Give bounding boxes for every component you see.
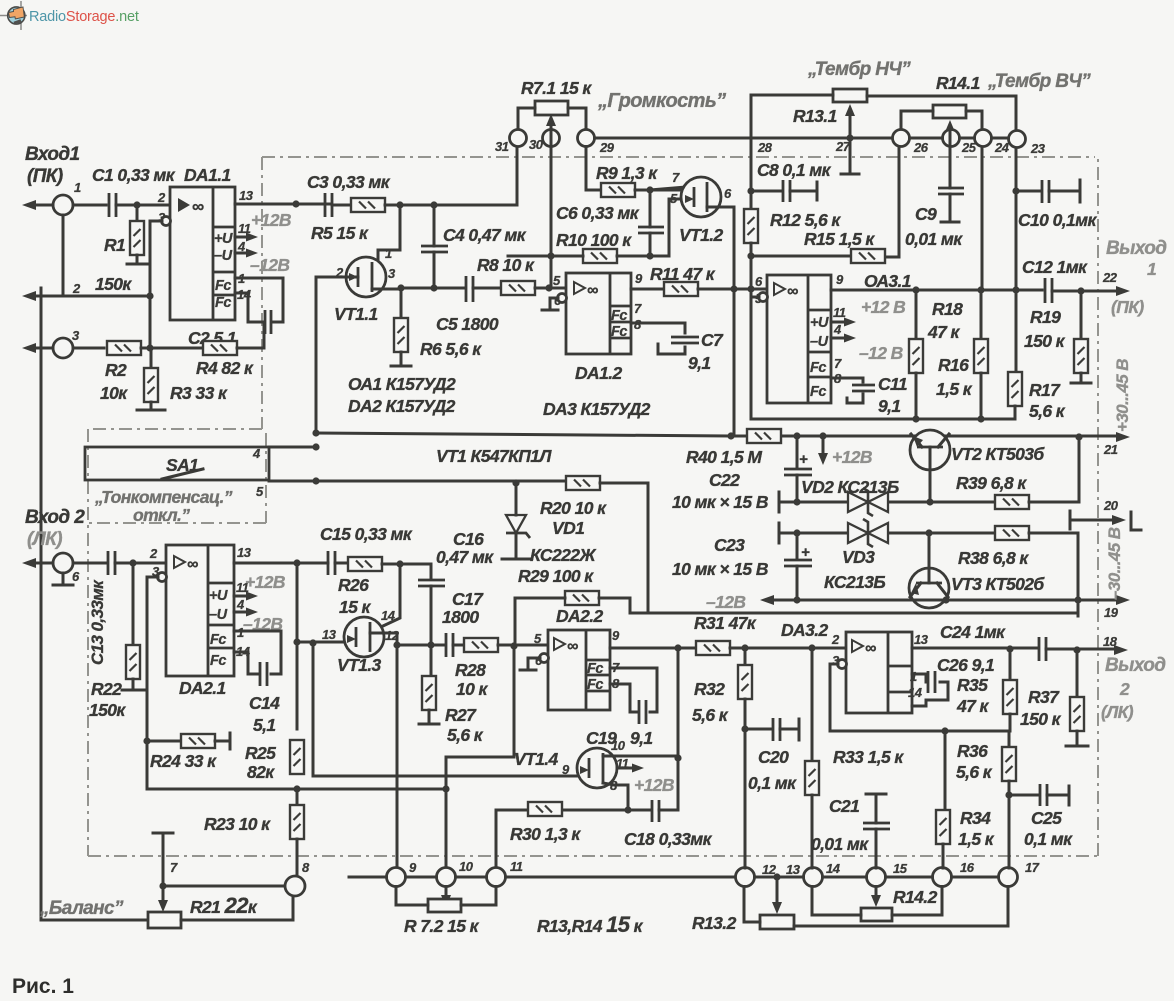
svg-text:∞: ∞ bbox=[187, 556, 198, 573]
svg-text:Вход1: Вход1 bbox=[25, 144, 80, 165]
svg-text:R35: R35 bbox=[957, 675, 988, 695]
wire C2 loop from pin1 bbox=[235, 278, 283, 322]
node x678 output bbox=[674, 644, 681, 651]
svg-text:1,5 к: 1,5 к bbox=[958, 829, 995, 849]
wire R7.2 right lead bbox=[461, 887, 496, 906]
svg-text:–12В: –12В bbox=[706, 592, 745, 612]
svg-text:VT1 К547КП1Л: VT1 К547КП1Л bbox=[436, 446, 552, 466]
wire feedback rail y789 bbox=[147, 788, 446, 791]
svg-text:4: 4 bbox=[236, 597, 245, 612]
transistor VT1.2 bbox=[681, 177, 721, 217]
node feedback x150 bbox=[146, 344, 153, 351]
wire R10 wires bbox=[551, 255, 669, 258]
R14.2 wiper arrow bbox=[875, 887, 878, 899]
resistor R2 bbox=[107, 341, 141, 355]
potentiometer R7.2 bbox=[428, 899, 461, 912]
node R32 top bbox=[741, 644, 748, 651]
wire 12-13-14 bbox=[755, 876, 804, 879]
contact circle 17 bbox=[999, 868, 1018, 887]
svg-text:9,1: 9,1 bbox=[878, 396, 901, 416]
svg-text:C24 1мк: C24 1мк bbox=[940, 622, 1006, 642]
wire SA1 pin5 bbox=[269, 480, 316, 483]
contact circle 8 bbox=[285, 876, 305, 896]
wire R11 to DA3.1 bbox=[698, 288, 767, 291]
svg-text:R22: R22 bbox=[91, 679, 122, 699]
R22 end bar bbox=[122, 679, 144, 690]
svg-text:VD2 КС213Б: VD2 КС213Б bbox=[801, 477, 899, 497]
node C23 mid bbox=[793, 529, 800, 536]
resistor R5 bbox=[351, 198, 385, 212]
wire 16-17 bbox=[952, 876, 999, 879]
capacitor C7 bbox=[671, 337, 699, 343]
wire R39 right up bbox=[1029, 437, 1079, 502]
wire 9-10 bbox=[406, 876, 437, 879]
svg-text:C16: C16 bbox=[453, 529, 484, 549]
node R18 top bbox=[912, 286, 919, 293]
wire row 288 bbox=[401, 287, 465, 290]
node output DA2.1 bbox=[293, 559, 300, 566]
resistor R38 bbox=[995, 526, 1029, 540]
node R25 bottom bbox=[293, 785, 300, 792]
resistor R33 bbox=[811, 648, 814, 761]
resistor R28 bbox=[464, 638, 498, 652]
svg-text:C3 0,33 мк: C3 0,33 мк bbox=[307, 172, 391, 192]
op-amp DA3.2 box bbox=[846, 632, 912, 713]
DA1.1 triangle infinity bbox=[178, 198, 190, 212]
wire R14.2 left lead bbox=[812, 887, 861, 916]
node rail gate bbox=[312, 429, 319, 436]
resistor R17 bbox=[1015, 290, 1018, 372]
contact 7 bar bbox=[153, 833, 173, 886]
svg-text:+: + bbox=[801, 544, 810, 561]
transistor VT1.3 bbox=[344, 617, 384, 657]
svg-text:VT1.3: VT1.3 bbox=[337, 655, 382, 675]
wire DA2.1 feedback down bbox=[147, 577, 158, 789]
svg-text:R36: R36 bbox=[957, 741, 988, 761]
DA2.2 inverting circle bbox=[540, 654, 549, 663]
wire R29 left down bbox=[515, 598, 565, 646]
svg-text:13: 13 bbox=[786, 862, 801, 877]
zener diode VD1 bbox=[515, 483, 518, 515]
wire C21 down bbox=[875, 829, 878, 868]
wire C3 to R5 bbox=[332, 204, 351, 207]
capacitor C11 bbox=[852, 385, 875, 391]
-12В rail bbox=[768, 599, 1120, 602]
wire contact29 down to R9 bbox=[586, 147, 602, 191]
svg-text:R5 15 к: R5 15 к bbox=[311, 223, 369, 243]
wire VT1.2 gate loop bbox=[669, 199, 683, 256]
svg-text:10: 10 bbox=[459, 859, 474, 874]
svg-text:+12В: +12В bbox=[251, 210, 291, 230]
wire VT1.3 drain bbox=[383, 564, 400, 626]
main rail y436 bbox=[316, 433, 1120, 436]
capacitor C18 bbox=[652, 800, 659, 822]
arrowhead row 296 bbox=[22, 291, 36, 301]
node R6 top bbox=[397, 284, 404, 291]
rail y616 bbox=[630, 612, 1078, 615]
node R15 left bbox=[747, 252, 754, 259]
svg-text:R8 10 к: R8 10 к bbox=[477, 255, 535, 275]
potentiometer R14.1 bbox=[933, 105, 966, 118]
DA3.2 divider bbox=[888, 632, 912, 713]
capacitor C16 bbox=[418, 580, 445, 586]
svg-text:10: 10 bbox=[611, 738, 626, 753]
svg-text:0,1 мк: 0,1 мк bbox=[1024, 829, 1073, 849]
svg-text:1: 1 bbox=[385, 246, 392, 261]
wire C16 down bbox=[430, 586, 433, 645]
node C4 bottom bbox=[430, 284, 437, 291]
DA2.1 divider bbox=[208, 545, 234, 676]
svg-text:5,6 к: 5,6 к bbox=[692, 705, 729, 725]
svg-text:С23: С23 bbox=[714, 535, 745, 555]
resistor R36 bbox=[1008, 731, 1011, 747]
svg-text:0,01 мк: 0,01 мк bbox=[905, 229, 963, 249]
resistor R10 bbox=[583, 249, 617, 263]
svg-text:ОА3.1: ОА3.1 bbox=[864, 271, 911, 291]
riser to contact 31 bbox=[516, 147, 519, 205]
potentiometer R14.2 bbox=[861, 908, 892, 921]
contact 15 bar / C21 bbox=[866, 794, 886, 823]
svg-text:VT1.1: VT1.1 bbox=[334, 304, 378, 324]
svg-text:R39 6,8 к: R39 6,8 к bbox=[956, 473, 1027, 493]
wire DA3.2 feedback bbox=[830, 664, 1009, 731]
node C23 bottom bbox=[793, 596, 800, 603]
ground under input 2 bbox=[53, 573, 73, 585]
svg-text:10 мк × 15 В: 10 мк × 15 В bbox=[672, 559, 768, 579]
svg-text:0,1 мк: 0,1 мк bbox=[748, 773, 797, 793]
svg-text:150 к: 150 к bbox=[1024, 331, 1066, 351]
svg-text:4: 4 bbox=[252, 446, 261, 461]
node output DA1.1 bbox=[292, 200, 299, 207]
svg-text:С26 9,1: С26 9,1 bbox=[937, 655, 994, 675]
node source/contact9 bbox=[393, 641, 400, 648]
arrowhead output 1 bbox=[1116, 286, 1130, 296]
node SA1 pin4 bbox=[312, 443, 319, 450]
wire R4 right up to C2 bbox=[237, 322, 264, 348]
R13.1 wiper end bar bbox=[841, 173, 859, 176]
potentiometer R7.1 bbox=[535, 101, 568, 115]
node C4 top bbox=[430, 201, 437, 208]
svg-text:R21 22к: R21 22к bbox=[190, 893, 258, 918]
wire R9 to VT1.2 bbox=[635, 189, 684, 192]
svg-text:R7.1 15 к: R7.1 15 к bbox=[521, 78, 592, 98]
wire C26 loop bbox=[912, 674, 948, 706]
capacitor C25 bbox=[1009, 794, 1038, 797]
wire R38 right down bbox=[1029, 533, 1078, 616]
DA3.1 divider bbox=[808, 275, 831, 403]
svg-text:1,5 к: 1,5 к bbox=[936, 379, 973, 399]
svg-text:R1: R1 bbox=[104, 235, 125, 255]
DA2.2 triangle infinity bbox=[554, 638, 565, 650]
contact circle 14 bbox=[804, 868, 823, 887]
svg-text:4: 4 bbox=[833, 322, 842, 337]
svg-text:2: 2 bbox=[157, 190, 166, 205]
wire VT1.3 source jog bbox=[370, 633, 397, 645]
svg-text:R23 10 к: R23 10 к bbox=[204, 814, 271, 834]
node VT1.3 drain top bbox=[396, 560, 403, 567]
node VT2 base bbox=[926, 498, 933, 505]
wire R2 to R4 bbox=[141, 347, 203, 350]
svg-text:R33 1,5 к: R33 1,5 к bbox=[833, 747, 904, 767]
svg-text:150 к: 150 к bbox=[1020, 709, 1062, 729]
svg-text:150к: 150к bbox=[89, 700, 126, 720]
svg-text:VT3 КТ502б: VT3 КТ502б bbox=[951, 574, 1045, 594]
DA1.2 divider bbox=[610, 273, 631, 354]
svg-text:R32: R32 bbox=[694, 679, 725, 699]
capacitor C24 bbox=[1039, 637, 1046, 661]
R37 end bar bbox=[1066, 731, 1088, 746]
R19 end bar bbox=[1071, 373, 1091, 383]
resistor R29 bbox=[565, 591, 599, 605]
svg-text:0,01 мк: 0,01 мк bbox=[811, 834, 869, 854]
svg-text:R19: R19 bbox=[1030, 307, 1061, 327]
resistor R16 bbox=[980, 290, 983, 339]
capacitor C6 bbox=[638, 227, 664, 233]
svg-text:SA1: SA1 bbox=[166, 455, 198, 475]
wire R15 row bbox=[751, 147, 899, 258]
svg-text:2: 2 bbox=[1119, 679, 1130, 699]
resistor R24 bbox=[147, 740, 181, 743]
wire R5 to riser bbox=[385, 204, 517, 207]
SA1 lever bbox=[162, 469, 203, 479]
svg-text:C15 0,33 мк: C15 0,33 мк bbox=[320, 524, 413, 544]
svg-text:∞: ∞ bbox=[787, 283, 798, 300]
resistor R18 bbox=[915, 290, 918, 339]
wire R13.1 right lead bbox=[867, 96, 1016, 191]
pin 20 tap bbox=[1070, 511, 1141, 530]
node R12 vertical bbox=[747, 285, 754, 292]
svg-text:13: 13 bbox=[239, 188, 254, 203]
svg-text:Fc: Fc bbox=[215, 278, 231, 294]
node R37 top bbox=[1073, 646, 1080, 653]
wire input2 to C13 bbox=[73, 562, 106, 565]
capacitor C13 bbox=[108, 551, 115, 575]
DA1.1 inverting input circle bbox=[162, 217, 171, 226]
svg-text:11: 11 bbox=[833, 305, 846, 320]
svg-text:+U: +U bbox=[209, 588, 228, 604]
svg-text:R13,R14 15 к: R13,R14 15 к bbox=[537, 912, 644, 937]
DA3.1 triangle infinity bbox=[774, 283, 785, 295]
node C8 junction bbox=[747, 187, 754, 194]
R27 ground bar bbox=[419, 710, 439, 724]
node C25 left bbox=[1005, 791, 1012, 798]
node R22 top bbox=[129, 559, 136, 566]
svg-text:1: 1 bbox=[1147, 259, 1156, 279]
svg-text:Fc: Fc bbox=[587, 677, 603, 693]
node at R1 top bbox=[133, 201, 140, 208]
wire R13.1 left lead bbox=[751, 95, 833, 191]
svg-text:+12В: +12В bbox=[634, 775, 674, 795]
node VD1 top bbox=[512, 479, 519, 486]
svg-text:15 к: 15 к bbox=[339, 597, 372, 617]
wire arrow left of circle3 bbox=[30, 347, 53, 350]
contact circle 15 bbox=[867, 868, 886, 887]
svg-text:–U: –U bbox=[214, 248, 233, 264]
resistor R1 bbox=[136, 205, 139, 221]
svg-text:R28: R28 bbox=[455, 660, 486, 680]
node C22 top bbox=[793, 432, 800, 439]
resistor R3 bbox=[150, 348, 153, 368]
svg-text:+U: +U bbox=[810, 315, 829, 331]
arrowhead -12В bbox=[760, 595, 774, 605]
svg-text:Fc: Fc bbox=[611, 308, 627, 324]
wire circle3 to R2 bbox=[73, 347, 104, 350]
wire C24 to out arrow bbox=[1046, 648, 1118, 651]
svg-text:С22: С22 bbox=[709, 470, 740, 490]
wire VD2 row to R39 bbox=[930, 501, 995, 504]
arrowhead output 2 bbox=[1114, 645, 1128, 655]
svg-text:9,1: 9,1 bbox=[688, 353, 711, 373]
node SA1 pin5/R20 bbox=[312, 477, 319, 484]
wire DA3.1 output row bbox=[831, 289, 1042, 292]
svg-text:(ЛК): (ЛК) bbox=[27, 529, 62, 550]
resistor R11 bbox=[664, 282, 698, 296]
wire contact7 node to contact 8 bbox=[163, 885, 285, 888]
capacitor C3 bbox=[325, 193, 332, 217]
wire VT1.1 source to row bbox=[372, 288, 401, 291]
transistor VT2 bbox=[910, 430, 950, 502]
svg-text:Fc: Fc bbox=[210, 632, 226, 648]
capacitor C9 bbox=[938, 188, 964, 194]
VT1.4 pin11 arrow bbox=[617, 767, 636, 770]
svg-text:Fc: Fc bbox=[215, 295, 231, 311]
transistor VT1.1 bbox=[346, 257, 386, 297]
DA3.1 inverting circle bbox=[759, 293, 768, 302]
resistor R39 bbox=[995, 495, 1029, 509]
svg-text:R10 100 к: R10 100 к bbox=[556, 230, 632, 250]
node R10 left bbox=[547, 252, 554, 259]
op-amp DA2.2 box bbox=[548, 630, 610, 710]
wire R7.2 left lead bbox=[396, 887, 428, 906]
wire DA3.2 output row bbox=[912, 647, 1037, 650]
svg-text:19: 19 bbox=[1104, 605, 1119, 620]
R21 wiper arrow bbox=[162, 886, 165, 903]
resistor R8 bbox=[501, 281, 535, 295]
svg-text:Fc: Fc bbox=[587, 661, 603, 677]
wire C4 stem bbox=[433, 205, 436, 288]
wire R13.2 right lead bbox=[794, 887, 1008, 927]
svg-text:R34: R34 bbox=[960, 808, 991, 828]
svg-text:14: 14 bbox=[381, 608, 396, 623]
svg-text:R18: R18 bbox=[932, 299, 963, 319]
capacitor C22 bbox=[796, 436, 799, 468]
resistor R31 bbox=[696, 641, 730, 655]
wire wiper30 down bbox=[550, 126, 553, 288]
svg-text:R24 33 к: R24 33 к bbox=[150, 751, 217, 771]
svg-text:16: 16 bbox=[960, 860, 975, 875]
capacitor C2 bbox=[265, 310, 271, 334]
svg-text:DA3.2: DA3.2 bbox=[781, 620, 828, 640]
resistor R26 bbox=[348, 557, 382, 571]
wire C15 to R26 bbox=[335, 562, 348, 565]
contact circle 31 bbox=[510, 130, 527, 147]
svg-text:R30 1,3 к: R30 1,3 к bbox=[510, 824, 581, 844]
svg-text:10 к: 10 к bbox=[456, 679, 489, 699]
wire R20 right loop down bbox=[600, 483, 648, 613]
resistor R40 bbox=[747, 429, 781, 443]
svg-text:R12 5,6 к: R12 5,6 к bbox=[770, 210, 841, 230]
svg-text:C7: C7 bbox=[701, 330, 724, 350]
wire VT1.1 drain bbox=[378, 205, 400, 262]
capacitor C17 bbox=[446, 633, 453, 657]
resistor R35 bbox=[1009, 649, 1012, 680]
node row296 x150 bbox=[146, 292, 153, 299]
dash-dot SA1 notch right bbox=[265, 433, 267, 523]
wire DA1.1 output pin13 bbox=[235, 203, 330, 206]
dash-dot border top bbox=[262, 156, 1095, 158]
capacitor C4 bbox=[421, 246, 448, 252]
wire contact 9 drop bbox=[396, 645, 399, 868]
contact circle 9 bbox=[387, 868, 406, 887]
svg-text:откл.”: откл.” bbox=[133, 505, 190, 525]
svg-text:47 к: 47 к bbox=[956, 696, 990, 716]
svg-text:С17: С17 bbox=[452, 589, 484, 609]
wire between contacts 25-24 bbox=[960, 137, 975, 140]
wire 10-11 bbox=[456, 876, 487, 879]
bar left of VD3 row bbox=[779, 523, 797, 543]
svg-text:–30...45 В: –30...45 В bbox=[1105, 527, 1124, 600]
node wiper R13.1 row bbox=[846, 134, 853, 141]
svg-text:10 мк × 15 В: 10 мк × 15 В bbox=[672, 492, 768, 512]
wire DA2.1 output bbox=[234, 562, 328, 565]
wire input 2 arrow bbox=[30, 562, 53, 565]
svg-text:R4 82 к: R4 82 к bbox=[196, 358, 254, 378]
node R39 rail bbox=[1075, 433, 1082, 440]
wire gate branch down to VT1.4 bbox=[313, 643, 577, 776]
svg-text:C9: C9 bbox=[915, 204, 937, 224]
contact circle 26 bbox=[893, 130, 910, 147]
op-amp DA2.1 box bbox=[166, 545, 234, 676]
svg-text:29: 29 bbox=[599, 140, 615, 155]
input terminal circle 1 bbox=[53, 195, 73, 215]
svg-text:2: 2 bbox=[149, 546, 158, 561]
svg-text:1: 1 bbox=[74, 180, 81, 195]
wire R26 to C16 bbox=[382, 564, 431, 579]
resistor R25 bbox=[290, 740, 304, 774]
dash-dot border bottom bbox=[88, 855, 1098, 857]
wire R8 to DA1.2 bbox=[535, 287, 566, 290]
node C18 left bbox=[624, 806, 631, 813]
node B C6/R10/gate bbox=[646, 252, 653, 259]
svg-text:R17: R17 bbox=[1029, 380, 1061, 400]
wire contact29 right long bbox=[595, 137, 891, 140]
capacitor C26 bbox=[928, 671, 935, 693]
resistor R27 bbox=[430, 645, 433, 676]
svg-text:82к: 82к bbox=[247, 762, 275, 782]
svg-text:14: 14 bbox=[826, 861, 841, 876]
ground under R1 bbox=[127, 255, 147, 264]
svg-text:ОА1 К157УД2: ОА1 К157УД2 bbox=[348, 374, 456, 394]
svg-text:RadioStorage.net: RadioStorage.net bbox=[29, 9, 139, 25]
wire VT1.2 source down bbox=[707, 207, 734, 436]
wire R7.1 right bbox=[568, 108, 586, 129]
node wiper R21 bbox=[159, 882, 166, 889]
logo crosshair bbox=[0, 1, 27, 30]
wire C14 loop bbox=[234, 631, 281, 674]
wire R29 right down bbox=[599, 598, 630, 613]
contact circle 12 bbox=[736, 868, 755, 887]
svg-text:С25: С25 bbox=[1031, 808, 1062, 828]
svg-text:23: 23 bbox=[1030, 141, 1046, 156]
op-amp DA1.1 box bbox=[170, 187, 235, 320]
svg-text:∞: ∞ bbox=[567, 638, 578, 655]
svg-text:27: 27 bbox=[835, 139, 851, 154]
node gate row bbox=[293, 638, 300, 645]
wire C9 to end bar bbox=[941, 194, 959, 222]
contact circle 29 bbox=[578, 130, 595, 147]
node A R9/C6/VT1.2 bbox=[646, 186, 653, 193]
svg-text:13: 13 bbox=[914, 632, 929, 647]
